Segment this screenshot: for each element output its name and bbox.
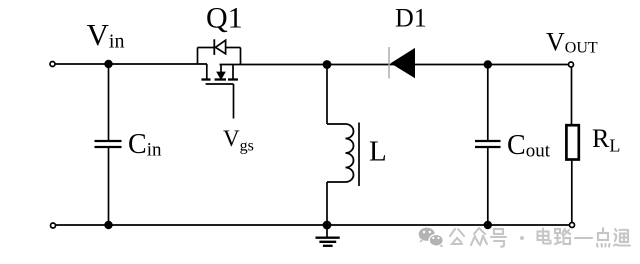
label Q1 tail trim: [203, 33, 231, 39]
node junction bottom Cin: [104, 221, 112, 229]
inductor L: [327, 123, 359, 187]
wire top rail right segment: [220, 64, 569, 66]
watermark logo wechat: [419, 228, 444, 248]
svg-text:Q1: Q1: [206, 2, 243, 35]
char 一: [575, 237, 592, 239]
terminal output bottom: [570, 223, 575, 228]
body diode loop right lead: [240, 48, 242, 65]
wire bottom rail: [56, 224, 569, 226]
wire RL branch top: [571, 68, 573, 126]
char 电: [538, 229, 551, 244]
node junction top inductor: [323, 60, 332, 69]
cathode bar: [388, 47, 390, 79]
capacitor Cin: [95, 141, 122, 147]
wire top rail left segment: [56, 63, 208, 65]
wire Cin branch top: [108, 64, 110, 140]
char 众: [471, 228, 487, 245]
gate lead: [233, 84, 235, 119]
diode D1: [389, 47, 415, 79]
capacitor Cout: [475, 141, 501, 147]
wire Cout branch top: [487, 65, 489, 141]
inductor core line: [358, 123, 360, 187]
char 通: [614, 229, 630, 246]
source stub: [232, 65, 234, 79]
char middle dot: [520, 236, 524, 240]
svg-text:D1: D1: [395, 4, 427, 33]
transistor Q1: [198, 39, 241, 118]
char 路: [555, 229, 570, 244]
anode triangle: [391, 48, 415, 78]
contact bar drain: [201, 78, 210, 80]
wire RL branch bottom: [571, 160, 573, 223]
contact bar source: [228, 78, 238, 80]
svg-text:L: L: [369, 136, 387, 168]
node junction bottom inductor: [323, 221, 332, 230]
ground: [316, 225, 340, 246]
node junction bottom Cout: [484, 221, 492, 229]
char 公: [450, 229, 464, 244]
terminal input bottom: [51, 223, 56, 228]
char 号: [491, 229, 506, 247]
body diode loop left lead: [197, 48, 199, 65]
wire Cout branch bottom: [487, 148, 489, 225]
body arrow head: [216, 72, 226, 81]
terminal output top: [569, 62, 574, 67]
node junction top Cout: [484, 60, 492, 68]
wire inductor branch top: [326, 65, 328, 125]
wire Cin branch bottom: [108, 148, 110, 225]
body arrow stem: [220, 65, 222, 73]
body diode triangle: [216, 40, 226, 54]
contact bar body: [215, 78, 226, 80]
terminal input top: [50, 62, 55, 67]
drain stub: [206, 64, 208, 79]
watermark text: 公众号·电路一点通 (hand-drawn strokes): [450, 228, 630, 247]
wire inductor branch bottom: [326, 182, 328, 225]
resistor RL: [566, 125, 578, 159]
gate line: [206, 83, 234, 85]
node junction top Cin: [104, 60, 112, 68]
body diode cathode bar: [213, 39, 215, 55]
char 点: [597, 228, 610, 247]
